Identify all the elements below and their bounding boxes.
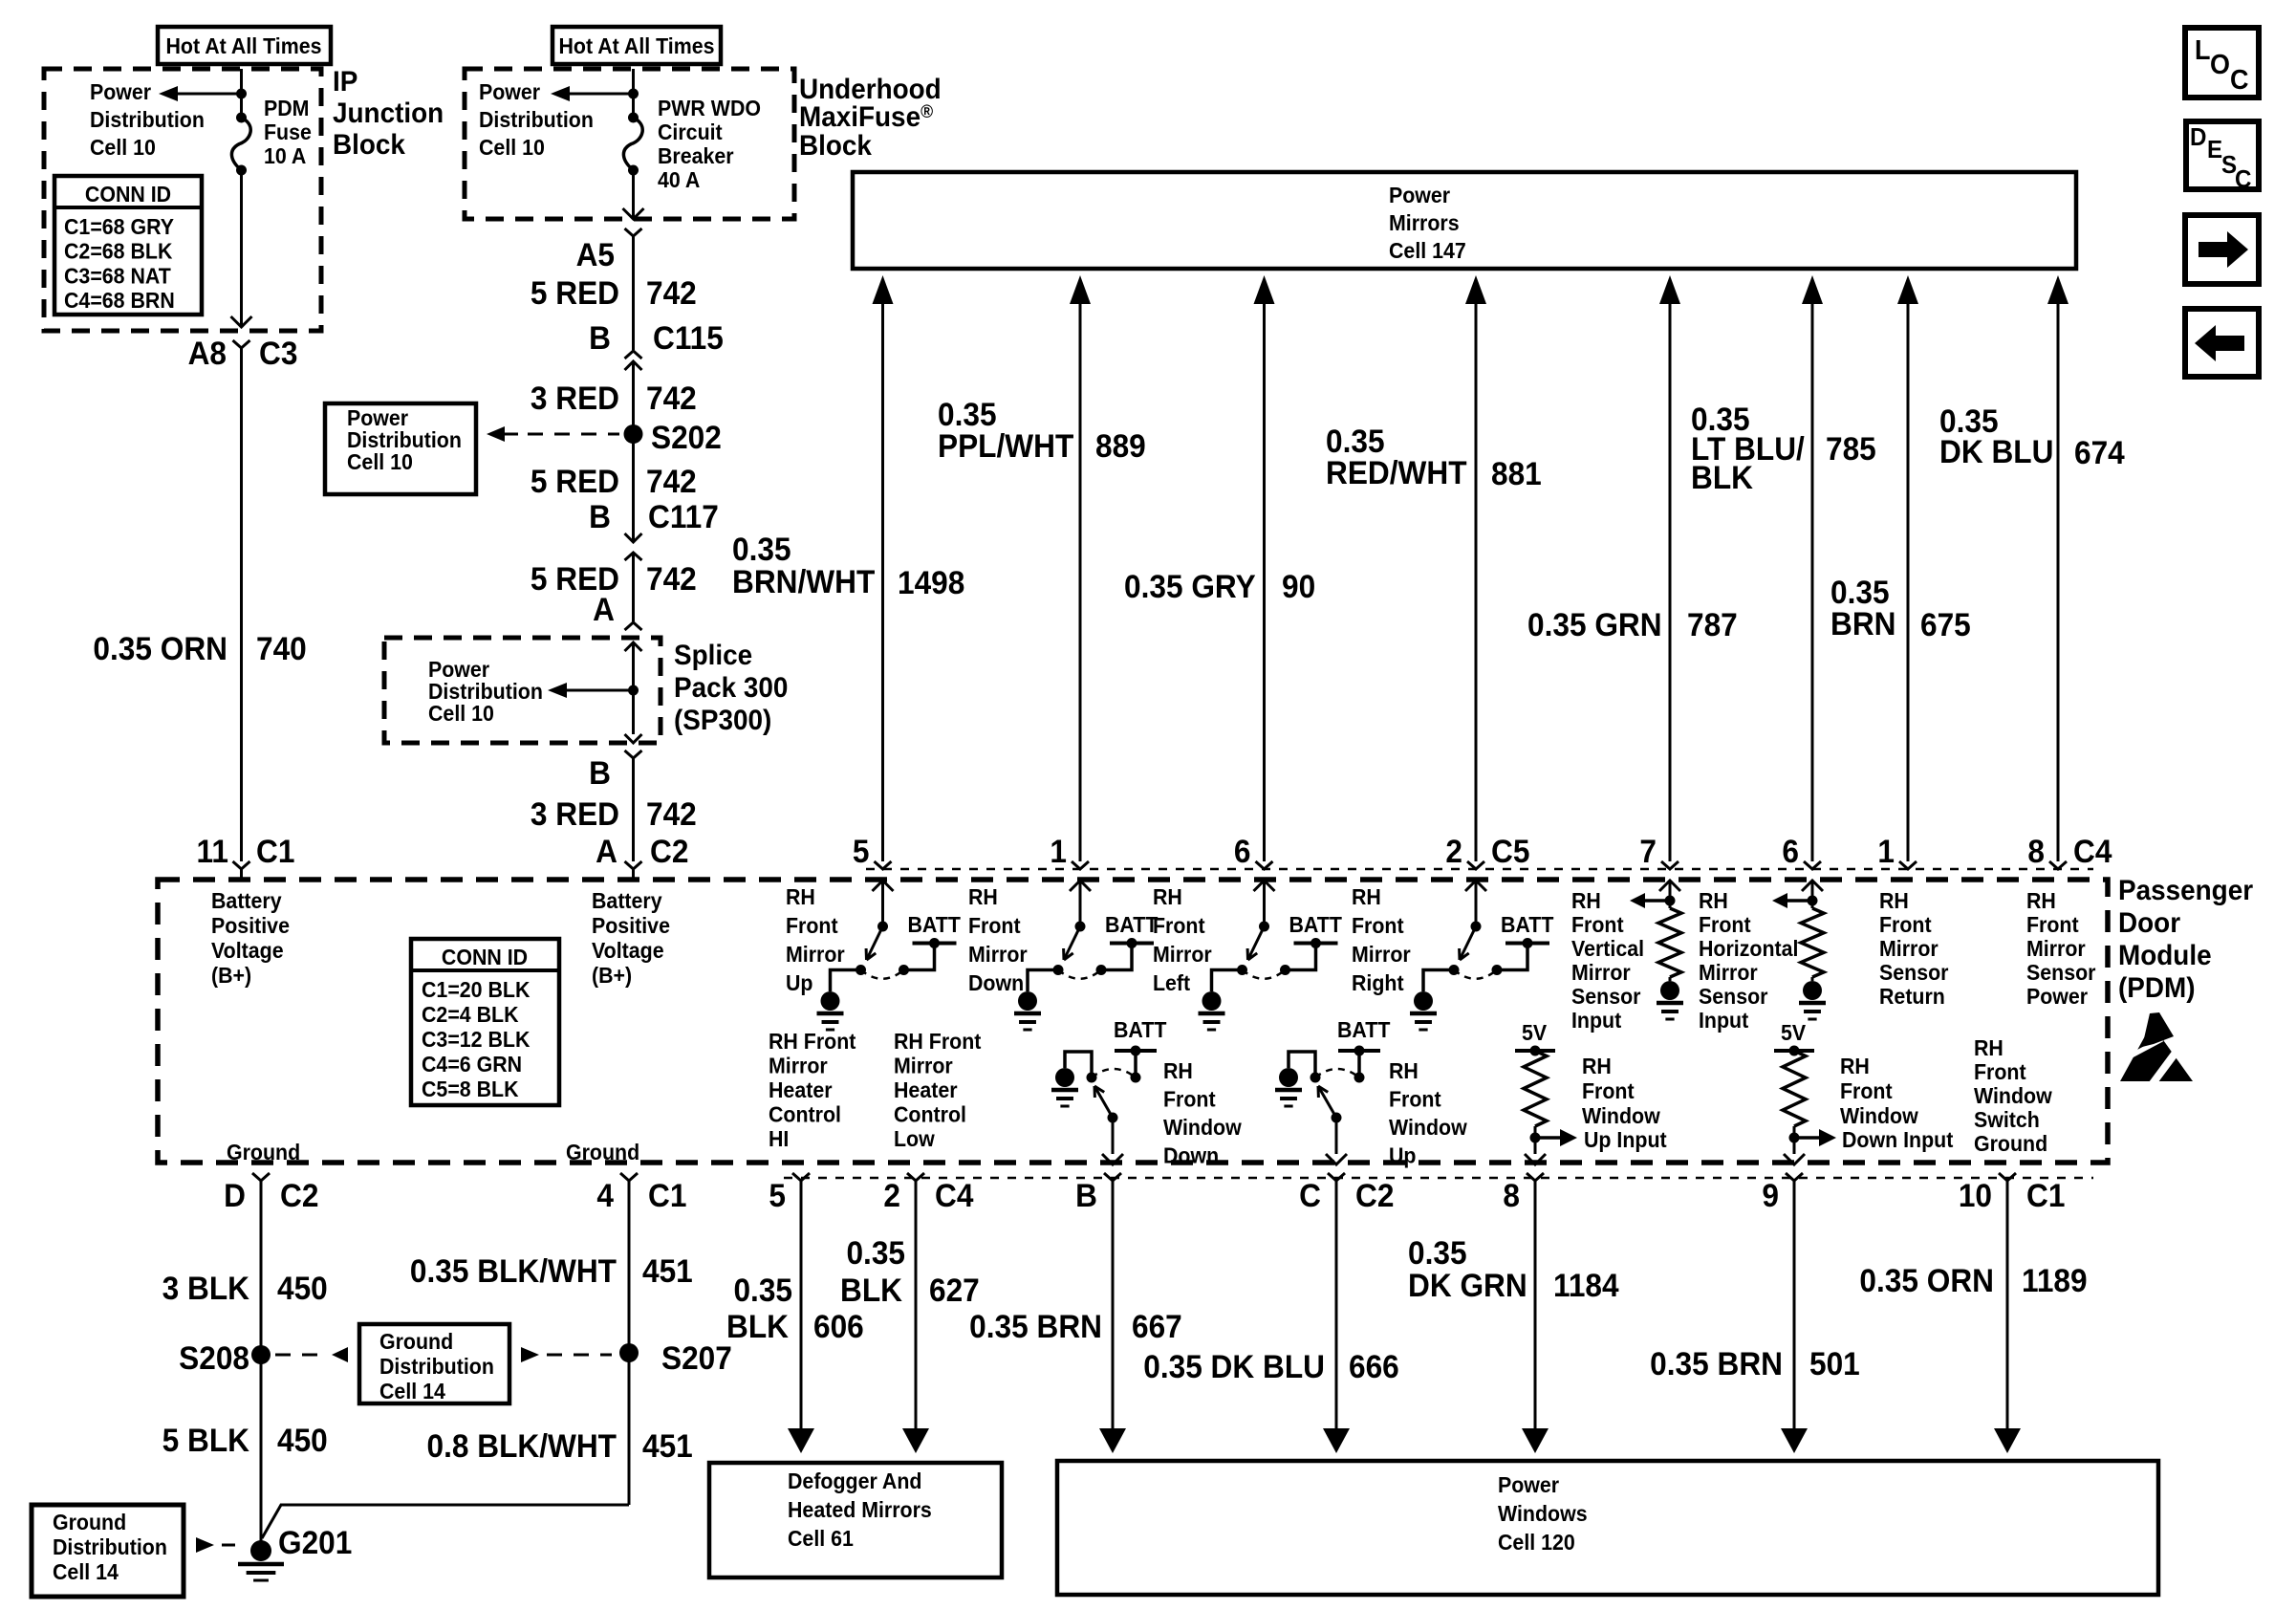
svg-text:Low: Low bbox=[894, 1126, 935, 1151]
svg-text:Cell 14: Cell 14 bbox=[53, 1559, 119, 1584]
BATT terminal (mirror Down) bbox=[1110, 942, 1154, 946]
svg-text:451: 451 bbox=[642, 1427, 693, 1464]
svg-text:8: 8 bbox=[2027, 833, 2045, 869]
svg-text:5V: 5V bbox=[1522, 1020, 1547, 1045]
dashed contact arc (mirror Left) bbox=[1243, 970, 1286, 979]
svg-text:9: 9 bbox=[1762, 1177, 1779, 1213]
svg-text:HI: HI bbox=[769, 1126, 789, 1151]
svg-text:Ground: Ground bbox=[1974, 1131, 2047, 1156]
fuse: PDM Fuse 10 A bbox=[236, 113, 247, 123]
svg-text:Left: Left bbox=[1153, 970, 1191, 995]
svg-text:C1: C1 bbox=[256, 833, 294, 869]
wire to power mirrors #3 bbox=[1254, 275, 1275, 304]
svg-text:O: O bbox=[2210, 49, 2230, 79]
svg-text:627: 627 bbox=[929, 1272, 980, 1308]
svg-text:11: 11 bbox=[197, 833, 228, 869]
svg-text:C5=8 BLK: C5=8 BLK bbox=[422, 1077, 519, 1101]
icon arrow right bbox=[2185, 215, 2259, 284]
svg-text:B: B bbox=[589, 754, 611, 791]
svg-text:0.35 GRY: 0.35 GRY bbox=[1124, 568, 1256, 604]
svg-text:C1: C1 bbox=[648, 1177, 686, 1213]
svg-text:C: C bbox=[2230, 64, 2248, 95]
wire to power mirrors #8 bbox=[2047, 275, 2069, 304]
wire to power mirrors #6 bbox=[1802, 275, 1823, 304]
svg-text:10 A: 10 A bbox=[264, 143, 306, 168]
svg-text:Splice: Splice bbox=[674, 640, 752, 671]
svg-text:C1=20 BLK: C1=20 BLK bbox=[422, 977, 530, 1002]
dashed contact arc (window Up) bbox=[1315, 1069, 1359, 1077]
svg-text:Junction: Junction bbox=[333, 98, 444, 129]
svg-text:Window: Window bbox=[1582, 1103, 1660, 1128]
svg-text:C4: C4 bbox=[2073, 833, 2112, 869]
svg-text:Cell 147: Cell 147 bbox=[1389, 238, 1466, 263]
svg-text:(B+): (B+) bbox=[592, 963, 632, 988]
svg-text:451: 451 bbox=[642, 1252, 693, 1289]
svg-text:Door: Door bbox=[2118, 907, 2180, 939]
svg-text:Distribution: Distribution bbox=[347, 427, 462, 452]
wire 4/C1 down to G201 bbox=[628, 1181, 631, 1505]
svg-text:Heater: Heater bbox=[769, 1077, 833, 1102]
box: Hot At All Times (IP) bbox=[158, 27, 331, 64]
svg-text:Heated Mirrors: Heated Mirrors bbox=[788, 1497, 932, 1522]
dashed contact arc (mirror Up) bbox=[861, 970, 904, 979]
svg-text:C3: C3 bbox=[259, 335, 297, 371]
svg-text:5: 5 bbox=[853, 833, 870, 869]
connector A5 bbox=[625, 228, 642, 236]
connector dash line bottom bbox=[784, 1177, 2093, 1180]
svg-text:Circuit: Circuit bbox=[658, 120, 723, 144]
svg-text:Window: Window bbox=[1840, 1103, 1918, 1128]
arrow to Power Distribution Cell 10 (2) bbox=[568, 93, 634, 96]
wire to power mirrors #7 bbox=[1897, 275, 1918, 304]
box Defogger And Heated Mirrors Cell 61 bbox=[709, 1463, 1002, 1577]
svg-text:450: 450 bbox=[277, 1270, 328, 1306]
icon DESC bbox=[2186, 121, 2259, 189]
svg-text:742: 742 bbox=[646, 274, 697, 311]
svg-text:Power: Power bbox=[90, 79, 151, 104]
wire 5 to defogger bbox=[800, 1181, 803, 1430]
svg-text:C2: C2 bbox=[280, 1177, 318, 1213]
svg-text:(PDM): (PDM) bbox=[2118, 972, 2196, 1004]
svg-text:Down: Down bbox=[968, 970, 1024, 995]
svg-text:B: B bbox=[589, 498, 611, 534]
wire B to power windows bbox=[1112, 1181, 1115, 1430]
svg-text:Distribution: Distribution bbox=[90, 107, 205, 132]
svg-text:BATT: BATT bbox=[1289, 912, 1343, 937]
svg-text:740: 740 bbox=[256, 630, 307, 666]
dashed contact arc (mirror Right) bbox=[1454, 970, 1497, 979]
svg-text:G201: G201 bbox=[278, 1524, 352, 1560]
wire 10/C1 to power windows bbox=[2006, 1181, 2009, 1430]
node: junction to power distribution bbox=[236, 89, 247, 99]
svg-text:Down Input: Down Input bbox=[1842, 1127, 1954, 1152]
svg-text:5V: 5V bbox=[1781, 1020, 1806, 1045]
svg-text:RH: RH bbox=[968, 884, 998, 909]
svg-text:Cell 61: Cell 61 bbox=[788, 1526, 854, 1551]
svg-text:D: D bbox=[224, 1177, 246, 1213]
svg-text:Front: Front bbox=[786, 913, 838, 938]
svg-text:Power: Power bbox=[479, 79, 540, 104]
svg-text:C3=12 BLK: C3=12 BLK bbox=[422, 1027, 530, 1052]
svg-text:RH: RH bbox=[1571, 888, 1601, 913]
svg-text:Mirror: Mirror bbox=[2026, 936, 2086, 961]
box: Power Mirrors Cell 147 bbox=[853, 172, 2076, 269]
svg-text:3 RED: 3 RED bbox=[531, 380, 619, 416]
svg-text:C: C bbox=[1299, 1177, 1321, 1213]
svg-text:Front: Front bbox=[968, 913, 1021, 938]
svg-text:B: B bbox=[1075, 1177, 1097, 1213]
svg-text:Cell 10: Cell 10 bbox=[428, 701, 494, 726]
svg-text:Ground: Ground bbox=[379, 1329, 453, 1354]
svg-text:C: C bbox=[2235, 165, 2251, 193]
svg-text:Battery: Battery bbox=[592, 888, 662, 913]
svg-text:Breaker: Breaker bbox=[658, 143, 734, 168]
svg-text:DK GRN: DK GRN bbox=[1408, 1267, 1527, 1303]
svg-text:0.35: 0.35 bbox=[1408, 1234, 1467, 1271]
svg-text:Hot At All Times: Hot At All Times bbox=[165, 33, 321, 58]
svg-text:C117: C117 bbox=[648, 498, 719, 534]
wire to power mirrors #1 bbox=[873, 275, 894, 304]
svg-text:Mirror: Mirror bbox=[1571, 960, 1631, 985]
svg-text:3 BLK: 3 BLK bbox=[162, 1270, 250, 1306]
svg-text:8: 8 bbox=[1503, 1177, 1520, 1213]
splice S207 bbox=[619, 1343, 639, 1362]
svg-text:L: L bbox=[2195, 34, 2210, 65]
svg-text:6: 6 bbox=[1234, 833, 1251, 869]
svg-text:2: 2 bbox=[1445, 833, 1462, 869]
BATT terminal (mirror Right) bbox=[1505, 942, 1549, 946]
svg-text:Sensor: Sensor bbox=[1571, 984, 1641, 1009]
svg-text:Mirror: Mirror bbox=[769, 1054, 828, 1078]
svg-text:RH: RH bbox=[1352, 884, 1381, 909]
svg-text:RH: RH bbox=[1389, 1058, 1419, 1083]
svg-text:Input: Input bbox=[1699, 1008, 1749, 1033]
wire to power mirrors #4 bbox=[1465, 275, 1486, 304]
svg-text:5 RED: 5 RED bbox=[531, 463, 619, 499]
svg-text:Defogger And: Defogger And bbox=[788, 1469, 921, 1493]
svg-text:Front: Front bbox=[1699, 912, 1751, 937]
svg-text:0.35: 0.35 bbox=[732, 531, 791, 567]
svg-text:DK BLU: DK BLU bbox=[1939, 433, 2053, 469]
svg-text:Cell 14: Cell 14 bbox=[379, 1379, 446, 1403]
svg-text:Input: Input bbox=[1571, 1008, 1622, 1033]
svg-text:Sensor: Sensor bbox=[1699, 984, 1768, 1009]
svg-text:Mirror: Mirror bbox=[1879, 936, 1939, 961]
svg-text:606: 606 bbox=[813, 1308, 864, 1344]
CONN ID table (IP junction block) bbox=[54, 176, 202, 315]
svg-text:E: E bbox=[2207, 136, 2222, 163]
svg-text:S207: S207 bbox=[661, 1339, 732, 1376]
svg-text:Control: Control bbox=[769, 1102, 841, 1127]
svg-text:Mirror: Mirror bbox=[968, 942, 1028, 967]
svg-text:Return: Return bbox=[1879, 984, 1945, 1009]
svg-text:Up: Up bbox=[1389, 1143, 1416, 1168]
node SP300 junction bbox=[628, 685, 639, 696]
ESD symbol bbox=[2120, 1024, 2193, 1081]
svg-text:Front: Front bbox=[1163, 1087, 1216, 1112]
svg-text:Power: Power bbox=[2026, 984, 2088, 1009]
svg-text:1: 1 bbox=[1877, 833, 1895, 869]
BATT terminal (mirror Left) bbox=[1294, 942, 1338, 946]
ground (mirror Up) bbox=[821, 991, 840, 1011]
Underhood MaxiFuse Block dashed box bbox=[465, 69, 794, 219]
svg-text:RED/WHT: RED/WHT bbox=[1326, 454, 1467, 490]
ground (sensor Vertical) bbox=[1660, 981, 1679, 1000]
switch arm (window Down) bbox=[1108, 1113, 1118, 1123]
svg-text:C2=68 BLK: C2=68 BLK bbox=[64, 239, 172, 264]
dashed contact arc (mirror Down) bbox=[1058, 970, 1101, 979]
svg-text:BLK: BLK bbox=[1691, 459, 1753, 495]
svg-text:Mirror: Mirror bbox=[894, 1054, 953, 1078]
box Power Windows Cell 120 bbox=[1057, 1461, 2158, 1595]
svg-text:Sensor: Sensor bbox=[1879, 960, 1949, 985]
svg-text:Mirror: Mirror bbox=[786, 942, 845, 967]
svg-text:Front: Front bbox=[1571, 912, 1624, 937]
svg-text:5: 5 bbox=[769, 1177, 786, 1213]
svg-text:Ground: Ground bbox=[566, 1140, 639, 1164]
svg-text:1: 1 bbox=[1050, 833, 1067, 869]
svg-text:BLK: BLK bbox=[726, 1308, 789, 1344]
svg-text:A8: A8 bbox=[188, 335, 227, 371]
svg-text:Cell 10: Cell 10 bbox=[90, 135, 156, 160]
Splice Pack 300 dashed box bbox=[384, 638, 661, 743]
svg-text:666: 666 bbox=[1349, 1348, 1399, 1384]
svg-text:Front: Front bbox=[1840, 1078, 1893, 1103]
svg-text:Front: Front bbox=[2026, 912, 2079, 937]
svg-text:0.8 BLK/WHT: 0.8 BLK/WHT bbox=[427, 1427, 617, 1464]
svg-text:RH: RH bbox=[1879, 888, 1909, 913]
svg-text:1189: 1189 bbox=[2022, 1262, 2088, 1298]
svg-text:RH: RH bbox=[1163, 1058, 1193, 1083]
svg-text:BATT: BATT bbox=[908, 912, 962, 937]
svg-text:Window: Window bbox=[1163, 1115, 1242, 1140]
svg-text:0.35 ORN: 0.35 ORN bbox=[93, 630, 227, 666]
switch RH Front Mirror Down bbox=[1070, 881, 1091, 891]
svg-text:Vertical: Vertical bbox=[1571, 936, 1644, 961]
svg-text:Front: Front bbox=[1389, 1087, 1441, 1112]
svg-text:1498: 1498 bbox=[898, 564, 964, 600]
wire inside splice pack bbox=[625, 642, 642, 651]
svg-text:881: 881 bbox=[1491, 455, 1542, 491]
wire 8 to power windows bbox=[1534, 1181, 1537, 1430]
IP Junction Block dashed box bbox=[44, 69, 321, 331]
svg-text:10: 10 bbox=[1959, 1177, 1992, 1213]
svg-text:CONN ID: CONN ID bbox=[442, 945, 528, 969]
svg-text:PDM: PDM bbox=[264, 96, 309, 120]
svg-text:40 A: 40 A bbox=[658, 167, 700, 192]
svg-text:Distribution: Distribution bbox=[379, 1354, 494, 1379]
Passenger Door Module dashed box bbox=[158, 880, 2108, 1163]
svg-text:501: 501 bbox=[1809, 1345, 1860, 1382]
svg-text:Power: Power bbox=[347, 405, 408, 430]
svg-text:A5: A5 bbox=[576, 236, 615, 272]
svg-text:Front: Front bbox=[1582, 1078, 1635, 1103]
svg-text:667: 667 bbox=[1132, 1308, 1182, 1344]
svg-text:C2: C2 bbox=[1355, 1177, 1394, 1213]
svg-text:(B+): (B+) bbox=[211, 963, 251, 988]
svg-text:889: 889 bbox=[1095, 427, 1146, 464]
wire 9 to power windows bbox=[1793, 1181, 1796, 1430]
svg-text:Up: Up bbox=[786, 970, 812, 995]
icon LOC bbox=[2185, 28, 2259, 98]
svg-text:674: 674 bbox=[2074, 434, 2125, 470]
svg-text:Block: Block bbox=[799, 130, 873, 162]
svg-text:Up Input: Up Input bbox=[1584, 1127, 1667, 1152]
svg-text:Front: Front bbox=[1974, 1059, 2026, 1084]
svg-text:C4=6 GRN: C4=6 GRN bbox=[422, 1052, 522, 1077]
svg-text:742: 742 bbox=[646, 795, 697, 832]
svg-text:742: 742 bbox=[646, 560, 697, 597]
svg-text:90: 90 bbox=[1282, 568, 1315, 604]
ground (mirror Right) bbox=[1414, 991, 1433, 1011]
svg-text:Distribution: Distribution bbox=[479, 107, 594, 132]
ground (mirror Down) bbox=[1018, 991, 1037, 1011]
svg-text:0.35 GRN: 0.35 GRN bbox=[1527, 606, 1662, 642]
svg-text:Battery: Battery bbox=[211, 888, 282, 913]
svg-text:C115: C115 bbox=[653, 319, 724, 356]
svg-text:RH Front: RH Front bbox=[769, 1029, 856, 1054]
box Power Distribution Cell 10 (S202 ref) bbox=[325, 403, 476, 494]
svg-text:Cell 10: Cell 10 bbox=[347, 449, 413, 474]
svg-text:Mirror: Mirror bbox=[1699, 960, 1758, 985]
svg-text:0.35 DK BLU: 0.35 DK BLU bbox=[1143, 1348, 1325, 1384]
svg-text:Window: Window bbox=[1389, 1115, 1467, 1140]
ground G201 bbox=[250, 1540, 271, 1561]
svg-text:450: 450 bbox=[277, 1422, 328, 1458]
BATT terminal (mirror Up) bbox=[913, 942, 957, 946]
svg-text:0.35 BLK/WHT: 0.35 BLK/WHT bbox=[410, 1252, 617, 1289]
dashed arrow to S207 bbox=[521, 1347, 539, 1362]
svg-text:Fuse: Fuse bbox=[264, 120, 312, 144]
ground (sensor Horizontal) bbox=[1803, 981, 1822, 1000]
switch RH Front Mirror Up bbox=[873, 881, 894, 891]
svg-text:4: 4 bbox=[596, 1177, 614, 1213]
svg-text:5 RED: 5 RED bbox=[531, 274, 619, 311]
svg-text:RH: RH bbox=[786, 884, 815, 909]
svg-text:A: A bbox=[596, 833, 617, 869]
wire below fuse bbox=[240, 170, 243, 327]
svg-text:Ground: Ground bbox=[53, 1510, 126, 1534]
wire corner to ground bbox=[262, 1505, 629, 1538]
svg-text:Power: Power bbox=[428, 657, 489, 682]
svg-text:Switch: Switch bbox=[1974, 1107, 2040, 1132]
svg-text:0.35: 0.35 bbox=[733, 1272, 792, 1308]
wire D/C2 ground to G201 bbox=[260, 1181, 263, 1541]
svg-text:S202: S202 bbox=[651, 419, 722, 455]
arrow to Power Distribution Cell 10 bbox=[176, 93, 242, 96]
svg-text:BATT: BATT bbox=[1105, 912, 1159, 937]
svg-text:RH: RH bbox=[1699, 888, 1728, 913]
svg-text:PWR WDO: PWR WDO bbox=[658, 96, 761, 120]
svg-text:0.35: 0.35 bbox=[846, 1234, 905, 1271]
sensor resistor RH Front Horizontal Mirror Sensor Input bbox=[1802, 881, 1823, 891]
svg-text:A: A bbox=[593, 591, 615, 627]
wire below breaker bbox=[632, 170, 635, 219]
dashed arrow to G201 bbox=[196, 1537, 214, 1553]
svg-text:BRN/WHT: BRN/WHT bbox=[732, 563, 875, 599]
switch RH Front Mirror Right bbox=[1465, 881, 1486, 891]
splice S208 bbox=[251, 1345, 271, 1364]
svg-text:785: 785 bbox=[1826, 430, 1876, 467]
svg-text:BATT: BATT bbox=[1114, 1017, 1167, 1042]
svg-text:RH Front: RH Front bbox=[894, 1029, 982, 1054]
svg-text:Cell 120: Cell 120 bbox=[1498, 1530, 1575, 1555]
wire to power mirrors #5 bbox=[1659, 275, 1680, 304]
svg-text:BRN: BRN bbox=[1830, 605, 1896, 642]
svg-text:C2: C2 bbox=[650, 833, 688, 869]
svg-text:Distribution: Distribution bbox=[428, 679, 543, 704]
icon arrow left bbox=[2185, 309, 2259, 377]
svg-text:D: D bbox=[2190, 123, 2206, 151]
sensor resistor RH Front Vertical Mirror Sensor Input bbox=[1659, 881, 1680, 891]
box: Hot At All Times (Maxifuse) bbox=[552, 27, 721, 64]
svg-text:0.35 BRN: 0.35 BRN bbox=[1650, 1345, 1783, 1382]
svg-text:Distribution: Distribution bbox=[53, 1534, 167, 1559]
ground (mirror Left) bbox=[1202, 991, 1222, 1011]
wire seg to C115 bbox=[632, 236, 635, 350]
svg-text:Power: Power bbox=[1498, 1472, 1559, 1497]
wire seg to S202 bbox=[632, 361, 635, 542]
svg-text:C5: C5 bbox=[1491, 833, 1529, 869]
svg-text:7: 7 bbox=[1639, 833, 1657, 869]
svg-text:RH: RH bbox=[1153, 884, 1182, 909]
svg-text:RH: RH bbox=[1974, 1035, 2004, 1060]
svg-text:IP: IP bbox=[333, 66, 357, 98]
CONN ID table PDM bbox=[411, 939, 559, 1105]
svg-text:C4=68 BRN: C4=68 BRN bbox=[64, 288, 175, 313]
svg-text:Sensor: Sensor bbox=[2026, 960, 2096, 985]
svg-text:1184: 1184 bbox=[1553, 1267, 1619, 1303]
svg-text:Mirrors: Mirrors bbox=[1389, 210, 1460, 235]
svg-text:Front: Front bbox=[1352, 913, 1404, 938]
svg-text:Front: Front bbox=[1153, 913, 1205, 938]
svg-text:675: 675 bbox=[1920, 606, 1971, 642]
switch RH Front Mirror Left bbox=[1254, 881, 1275, 891]
svg-text:Front: Front bbox=[1879, 912, 1932, 937]
switch arm (window Up) bbox=[1332, 1113, 1342, 1123]
svg-text:Cell 10: Cell 10 bbox=[479, 135, 545, 160]
svg-text:Voltage: Voltage bbox=[592, 938, 664, 963]
svg-text:C1=68 GRY: C1=68 GRY bbox=[64, 214, 174, 239]
box Ground Distribution Cell 14 (bottom) bbox=[32, 1505, 184, 1597]
svg-text:Positive: Positive bbox=[592, 913, 670, 938]
svg-text:BATT: BATT bbox=[1337, 1017, 1391, 1042]
svg-text:PPL/WHT: PPL/WHT bbox=[938, 427, 1073, 464]
svg-text:RH: RH bbox=[2026, 888, 2056, 913]
circuit breaker PWR WDO 40A bbox=[628, 113, 639, 123]
svg-text:Module: Module bbox=[2118, 940, 2212, 971]
wire: feed into circuit breaker bbox=[632, 69, 635, 118]
ground (window Up) bbox=[1279, 1068, 1298, 1087]
connector A8/C3 bbox=[233, 340, 250, 348]
svg-text:787: 787 bbox=[1687, 606, 1738, 642]
box Ground Distribution Cell 14 (mid) bbox=[359, 1324, 509, 1403]
svg-text:Hot At All Times: Hot At All Times bbox=[558, 33, 714, 58]
svg-text:Window: Window bbox=[1974, 1083, 2052, 1108]
connector dash line top bbox=[866, 868, 2093, 871]
svg-text:C2=4 BLK: C2=4 BLK bbox=[422, 1002, 519, 1027]
svg-text:RH: RH bbox=[1840, 1054, 1870, 1078]
wire: battery feed into PDM fuse bbox=[240, 69, 243, 118]
svg-text:B: B bbox=[589, 319, 611, 356]
svg-text:CONN ID: CONN ID bbox=[85, 182, 171, 207]
svg-text:Passenger: Passenger bbox=[2118, 875, 2253, 906]
svg-text:Mirror: Mirror bbox=[1153, 942, 1212, 967]
svg-text:Right: Right bbox=[1352, 970, 1404, 995]
svg-text:BATT: BATT bbox=[1501, 912, 1554, 937]
svg-text:Horizontal: Horizontal bbox=[1699, 936, 1798, 961]
svg-text:MaxiFuse®: MaxiFuse® bbox=[799, 100, 934, 133]
